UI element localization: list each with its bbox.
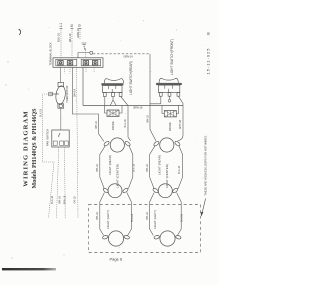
lamp B2 [152,184,178,198]
svg-text:WH-14: WH-14 [73,89,76,97]
diode D1 bracket wires [105,106,123,114]
wire A1 to A2 left [100,146,105,189]
wire main rail [83,105,183,107]
wire feed lamp A right [128,106,131,141]
wire G [79,29,81,41]
diode D1 [107,110,119,116]
wire B1 to B2 right [178,146,182,189]
lamp A2 [103,184,129,198]
wire stubs below block [65,67,95,73]
svg-text:BLK-18: BLK-18 [51,195,54,204]
dashed harness box [89,205,201,253]
wire N to terminal block [71,29,73,58]
svg-text:LIGHT (LEFT): LIGHT (LEFT) [153,210,157,229]
svg-text:WH-18: WH-18 [96,212,99,220]
svg-text:B: B [206,32,211,35]
svg-text:DIODE: DIODE [168,122,172,131]
note arrow [202,199,205,213]
lamp B3 [154,231,182,246]
specks [6,62,65,259]
svg-text:Models PH140QS & PH146QS: Models PH140QS & PH146QS [32,108,38,189]
svg-text:BLK-18: BLK-18 [132,163,135,172]
wire block down left leg [60,67,62,82]
svg-text:WH-10: WH-10 [68,33,72,42]
svg-text:LIGHT SWITCH(REAR): LIGHT SWITCH(REAR) [129,61,133,95]
title WIRING DIAGRAM [23,108,38,189]
svg-text:FAN SWITCH: FAN SWITCH [46,129,50,146]
svg-text:GRN-14: GRN-14 [124,56,134,59]
svg-text:WH-18: WH-18 [146,212,149,220]
wire rail vertical from block [82,67,84,105]
terminal block [53,58,103,68]
svg-text:BLK-18: BLK-18 [124,119,127,128]
lamp B1 [153,138,181,152]
svg-text:BLK-18: BLK-18 [181,213,184,222]
hook loop terminal [90,51,93,54]
svg-text:THERMOSTAT: THERMOSTAT [65,85,69,103]
rocker switch S1 [101,79,123,97]
wire block to G-line corner [78,53,90,58]
wire A2 to A3 left [100,193,105,236]
svg-text:WH-18: WH-18 [147,115,150,123]
wire bundle below fan switch [43,94,66,218]
wire S2 center hooked loop [169,96,171,99]
diode D2 bracket wires [162,106,179,114]
scan artifact line [2,268,56,270]
thermostat component [49,83,67,109]
svg-text:DIODE: DIODE [111,121,115,130]
svg-text:15-11-025: 15-11-025 [206,48,211,75]
wire S2 diagonal right [178,96,184,141]
svg-text:WH-18: WH-18 [95,121,98,129]
pen mark ) [19,29,21,35]
svg-text:LIGHT (REAR): LIGHT (REAR) [158,155,162,175]
wire feed lamp B left [150,106,156,142]
svg-text:WHT-18: WHT-18 [179,119,182,129]
fan switch [52,130,69,147]
wire B2 to B3 left [150,193,155,236]
wire L1 to terminal block [60,29,62,58]
svg-text:N: N [70,24,74,27]
svg-text:WH-18: WH-18 [146,164,149,172]
lamp A3 [102,231,130,246]
svg-text:G: G [78,24,82,27]
svg-text:TERMINAL BLOCK: TERMINAL BLOCK [49,42,53,66]
svg-text:BLK-18: BLK-18 [178,165,181,174]
svg-text:WIRING DIAGRAM: WIRING DIAGRAM [23,110,30,186]
wire S2 left side [150,96,161,104]
wire S1 terminals to rail [105,97,128,106]
svg-text:Page 6: Page 6 [110,257,123,262]
svg-text:THESE ARE HOOKED LOOPS FOR HOT: THESE ARE HOOKED LOOPS FOR HOT WIRES. [204,135,208,196]
svg-text:LIGHT (REAR): LIGHT (REAR) [108,155,112,175]
svg-text:OR-18: OR-18 [73,196,76,204]
svg-text:L1: L1 [59,23,63,27]
svg-text:LIGHT SWITCH(FRONT): LIGHT SWITCH(FRONT) [170,39,174,75]
wire ground to block [85,50,87,58]
wire feed lamp A left [72,67,104,141]
wire thermostat to fan switch [60,108,62,130]
wire A1 to A2 right [128,146,132,189]
wire long from block [77,67,79,218]
ground [82,43,87,50]
svg-text:WH-18: WH-18 [96,164,99,172]
rocker switch S2 [156,78,182,96]
svg-text:BRN-18: BRN-18 [134,106,144,109]
svg-text:GRN-10: GRN-10 [76,28,80,38]
wire down to right switch area [149,54,151,106]
diode D2 [164,111,176,117]
svg-text:BLK-18: BLK-18 [131,213,134,222]
wire B2 to B3 right [177,193,182,236]
wire dashed green line across top [93,53,150,55]
wire A2 to A3 right [127,193,132,236]
paper specks [18,20,210,248]
svg-text:BRN-18: BRN-18 [64,195,67,204]
lamp A1 [103,138,131,152]
svg-text:WH-18: WH-18 [58,196,61,204]
svg-text:BLK-18: BLK-18 [39,108,42,117]
wire B1 to B2 left [150,146,155,189]
svg-text:LIGHT (LEFT): LIGHT (LEFT) [106,210,110,229]
svg-text:BLK-10: BLK-10 [57,33,61,42]
